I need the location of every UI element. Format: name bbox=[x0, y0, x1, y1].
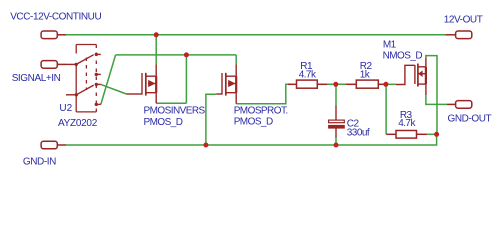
transistor M1 NMOS_D bbox=[396, 57, 426, 95]
U2 right pin stubs bbox=[96, 54, 101, 104]
M1 arrow bbox=[418, 70, 423, 77]
svg-text:PMOS_D: PMOS_D bbox=[144, 117, 183, 128]
junction dot W2 bbox=[184, 52, 189, 57]
wire C2 bottom to GND bbox=[335, 137, 337, 145]
svg-text:NMOS_D: NMOS_D bbox=[383, 51, 423, 62]
junction dot GND-C2 bbox=[334, 143, 339, 148]
U2 right pin dots bbox=[95, 53, 98, 106]
wire VCC drop to Q1 drain bbox=[155, 35, 157, 65]
svg-text:1k: 1k bbox=[360, 70, 371, 81]
svg-text:GND-OUT: GND-OUT bbox=[448, 114, 492, 125]
wire R3 left vertical to R2 junction bbox=[385, 84, 387, 134]
U2 switch arm 2 bbox=[76, 85, 93, 95]
svg-text:SIGNAL+IN: SIGNAL+IN bbox=[12, 73, 61, 84]
wire M1 drain loop bbox=[426, 56, 437, 135]
svg-text:VCC-12V-CONTINUU: VCC-12V-CONTINUU bbox=[10, 11, 101, 22]
wire GND net bottom horizontal bbox=[66, 134, 437, 145]
Q2 arrow bbox=[228, 80, 235, 87]
svg-text:PMOS_D: PMOS_D bbox=[234, 117, 273, 128]
svg-text:330uf: 330uf bbox=[347, 127, 370, 138]
U2 pivot dots bbox=[75, 63, 79, 97]
resistor R1 4.7k bbox=[288, 80, 327, 88]
svg-text:GND-IN: GND-IN bbox=[23, 157, 56, 168]
svg-text:U2: U2 bbox=[59, 103, 72, 114]
capacitor C2 330uf bbox=[329, 106, 345, 138]
connector pad 12V-OUT bbox=[445, 31, 472, 39]
svg-text:PMOSPROT.: PMOSPROT. bbox=[234, 106, 288, 117]
U2 common pin 1 lead bbox=[66, 63, 76, 65]
transistor Q2 PMOSPROT PMOS_D bbox=[216, 64, 236, 103]
connector pad GND-IN bbox=[41, 141, 66, 149]
svg-text:12V-OUT: 12V-OUT bbox=[444, 14, 483, 25]
U2 common pin 2 lead bbox=[66, 94, 76, 96]
resistor R2 1k bbox=[346, 80, 386, 88]
wire W3 Q1 source bbox=[156, 102, 186, 104]
wire W2 drop to Q2 drain bbox=[235, 55, 237, 65]
wire M1 source to GND-OUT bbox=[426, 95, 447, 104]
Q1 arrow bbox=[148, 80, 155, 87]
U2 switch arm 1 bbox=[76, 55, 94, 65]
wire R2 junction to M1 gate bbox=[386, 83, 396, 85]
wire Q2 source to R1 bbox=[236, 84, 290, 104]
svg-text:4.7k: 4.7k bbox=[398, 118, 416, 129]
wire net W2 horizontal bbox=[116, 54, 237, 56]
wire VCC net W1 top horizontal bbox=[66, 34, 445, 36]
junction dot GND-Q2gate bbox=[203, 143, 208, 148]
connector pad SIGNAL+IN bbox=[41, 61, 66, 69]
transistor Q1 PMOSINVERS PMOS_D bbox=[126, 64, 156, 103]
svg-text:4.7k: 4.7k bbox=[299, 70, 317, 81]
connector pad GND-OUT bbox=[447, 101, 472, 109]
junction dot VCC-Q1 bbox=[154, 32, 159, 37]
wire junction drop to C2 bbox=[335, 84, 337, 105]
resistor R3 4.7k bbox=[386, 131, 427, 139]
wire diagonal U2 pin3 to Q1 gate bbox=[101, 84, 127, 94]
wire GND drop to Q2 gate bbox=[206, 94, 217, 145]
junction dot R3-M1-GND bbox=[434, 132, 439, 137]
relay switch U2 body bbox=[76, 45, 96, 112]
junction dot R2-M1-R3 bbox=[383, 82, 388, 87]
svg-text:AYZ0202: AYZ0202 bbox=[58, 118, 98, 129]
svg-text:M1: M1 bbox=[383, 40, 397, 51]
wire R1 to R2 bbox=[327, 83, 346, 85]
junction dot R1-R2-C2 bbox=[333, 82, 338, 87]
connector pad VCC-12V-CONTINUU bbox=[41, 31, 66, 39]
wire diagonal U2 pin4 to W2 bbox=[101, 55, 116, 105]
svg-text:PMOSINVERS: PMOSINVERS bbox=[144, 106, 206, 117]
wire R3 right to junction bbox=[427, 133, 437, 135]
wire W2 junction drop bbox=[185, 55, 187, 103]
